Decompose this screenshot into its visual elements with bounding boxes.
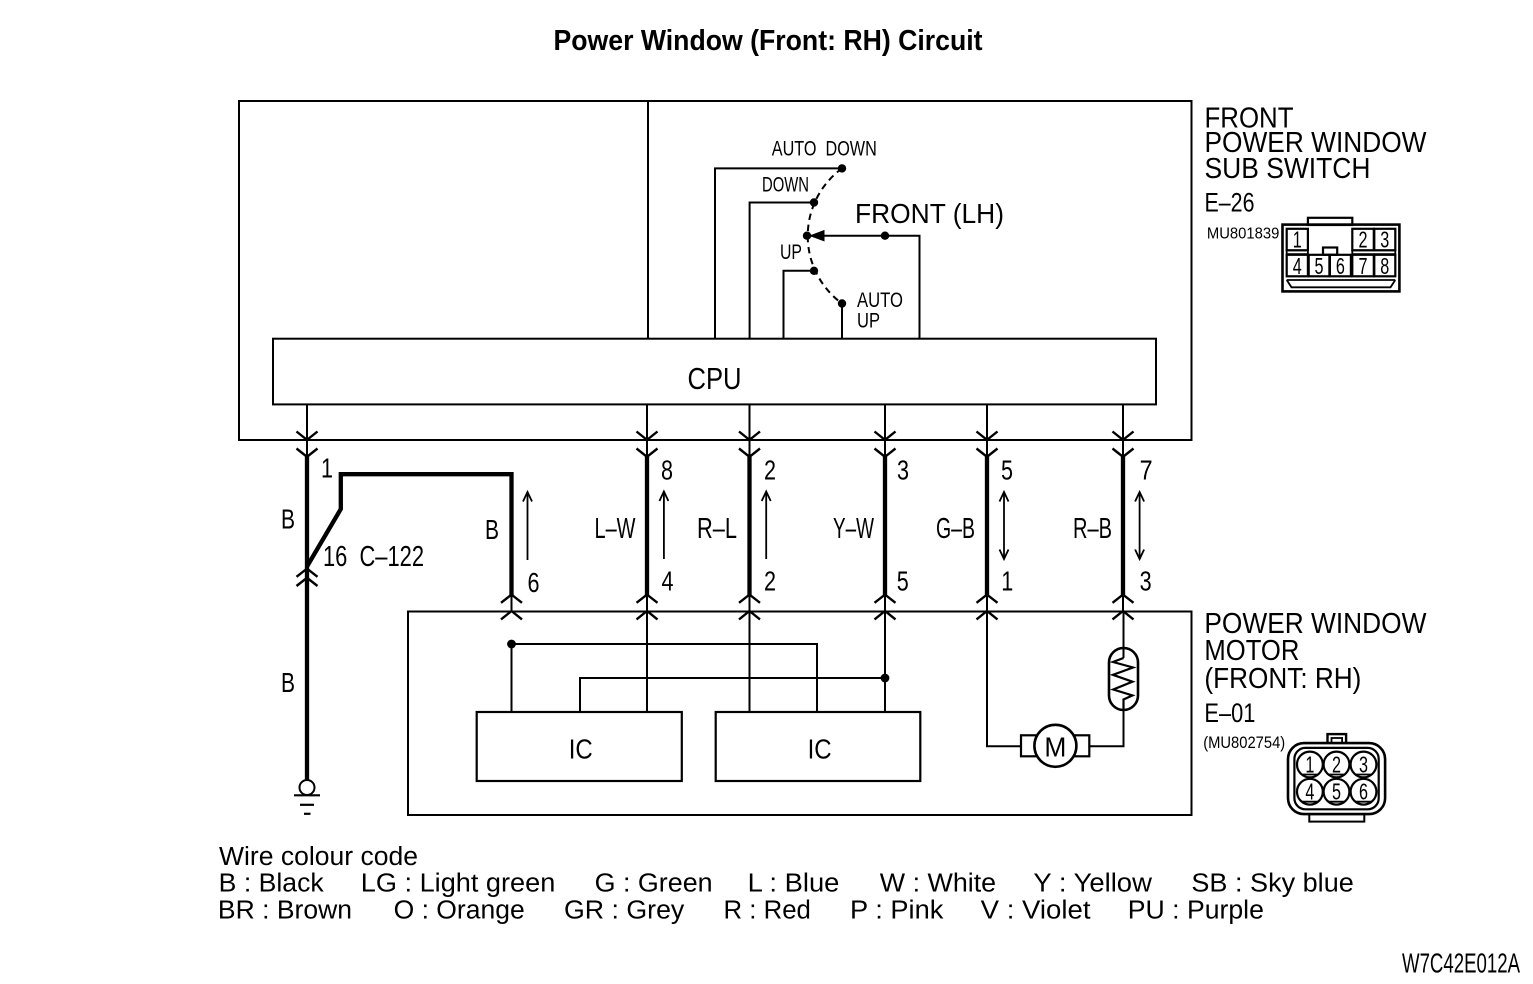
svg-text:B: B (281, 504, 295, 535)
svg-text:(MU802754): (MU802754) (1203, 734, 1285, 752)
svg-text:W7C42E012A: W7C42E012A (1402, 947, 1520, 978)
power window motor box E-01 (408, 612, 1192, 816)
current direction arrow (1003, 493, 1005, 558)
svg-text:LG : Light green: LG : Light green (361, 870, 556, 898)
current direction arrow (1139, 493, 1141, 558)
switch common pole FRONT (LH) (803, 198, 1004, 339)
svg-text:IC: IC (808, 734, 832, 765)
motor M1 (1021, 725, 1089, 767)
svg-text:SB : Sky blue: SB : Sky blue (1191, 870, 1353, 898)
IC U2 (477, 712, 682, 781)
svg-text:GR : Grey: GR : Grey (564, 897, 685, 925)
svg-text:BR : Brown: BR : Brown (218, 897, 352, 925)
connector pin chevrons (E-26 side) (977, 432, 998, 457)
connector pin chevrons (E-01 side) (1113, 595, 1134, 620)
wire B pin1 to ground (281, 404, 333, 780)
svg-text:3: 3 (1359, 752, 1368, 778)
motor box internal wiring (507, 640, 889, 712)
svg-text:UP: UP (857, 308, 880, 332)
svg-text:1: 1 (321, 453, 333, 484)
connector pin chevrons (E-26 side) (637, 432, 658, 457)
svg-text:E–01: E–01 (1204, 698, 1255, 728)
svg-text:4: 4 (662, 566, 674, 597)
connector pin chevrons (E-26 side) (875, 432, 896, 457)
connector pin chevrons (E-26 side) (1113, 432, 1134, 457)
wire R-B pins 7 to 3 (1073, 404, 1153, 619)
motor label block (1203, 608, 1427, 752)
svg-text:2: 2 (764, 566, 776, 597)
svg-text:AUTO DOWN: AUTO DOWN (772, 136, 877, 160)
current direction arrow (765, 493, 767, 560)
IC U3 (716, 712, 921, 781)
svg-text:MU801839: MU801839 (1207, 225, 1280, 242)
current direction arrow (527, 493, 529, 560)
switch contact AUTO UP (838, 288, 903, 339)
connector pin chevrons (E-26 side) (297, 432, 318, 457)
connector pin chevrons (E-26 side) (739, 432, 760, 457)
wire B-node down to IC1 (511, 644, 513, 712)
switch wiper dashed arc (808, 168, 842, 303)
connector E-26 pin numbers (1293, 227, 1390, 280)
in-line connector C-122 cavity 16 (297, 541, 425, 586)
thermistor PTC (1109, 612, 1138, 711)
svg-text:L–W: L–W (595, 513, 636, 545)
svg-text:B: B (281, 667, 295, 698)
svg-text:(FRONT: RH): (FRONT: RH) (1204, 663, 1361, 695)
svg-text:IC: IC (569, 734, 593, 765)
connector pin chevrons (E-01 side) (739, 595, 760, 620)
svg-text:2: 2 (1359, 227, 1368, 253)
svg-text:6: 6 (528, 567, 540, 598)
sub switch label block (1205, 102, 1428, 242)
current direction arrow (663, 493, 665, 560)
svg-text:CPU: CPU (688, 361, 742, 396)
svg-text:SUB SWITCH: SUB SWITCH (1205, 153, 1371, 185)
svg-text:3: 3 (897, 455, 909, 486)
svg-text:Wire colour code: Wire colour code (219, 843, 418, 871)
wire G-B to motor (987, 612, 1021, 747)
svg-text:UP: UP (780, 240, 802, 264)
wire B-node to IC2 (512, 644, 818, 712)
svg-text:4: 4 (1305, 779, 1314, 805)
internal divider wall (647, 101, 649, 339)
svg-text:M: M (1044, 732, 1066, 763)
wire Y-W node to IC1 (580, 678, 885, 712)
svg-text:B : Black: B : Black (219, 870, 324, 898)
wire B branch to motor pin 6 (307, 474, 540, 619)
svg-text:3: 3 (1140, 566, 1152, 597)
connector pin chevrons (E-01 side) (977, 595, 998, 620)
wire G-B pins 5 to 1 (936, 404, 1013, 619)
svg-text:Y : Yellow: Y : Yellow (1033, 870, 1152, 898)
svg-text:L : Blue: L : Blue (748, 870, 840, 898)
connector pin chevrons (E-01 side) (501, 595, 522, 620)
connector pin chevrons (E-01 side) (637, 595, 658, 620)
svg-text:Y–W: Y–W (833, 513, 874, 545)
svg-text:1: 1 (1001, 566, 1013, 597)
svg-text:V : Violet: V : Violet (981, 897, 1091, 925)
connector pin chevrons (E-01 side) (875, 595, 896, 620)
svg-text:8: 8 (1380, 253, 1389, 279)
connector E-01 pin numbers (1305, 752, 1368, 805)
switch contact UP (780, 240, 818, 339)
svg-text:16 C–122: 16 C–122 (323, 541, 424, 573)
svg-text:R : Red: R : Red (724, 897, 811, 925)
svg-text:6: 6 (1359, 779, 1368, 805)
wire L-W pins 8 to 4 (595, 404, 674, 712)
svg-text:G : Green: G : Green (595, 870, 713, 898)
svg-text:3: 3 (1380, 227, 1389, 253)
svg-text:6: 6 (1336, 253, 1345, 279)
svg-text:Power Window (Front: RH) Circu: Power Window (Front: RH) Circuit (554, 25, 983, 57)
svg-text:G–B: G–B (936, 513, 975, 545)
svg-text:R–B: R–B (1073, 513, 1112, 545)
svg-text:W : White: W : White (880, 870, 996, 898)
svg-text:4: 4 (1293, 253, 1302, 279)
svg-text:R–L: R–L (697, 513, 737, 545)
svg-text:5: 5 (1332, 779, 1341, 805)
svg-text:5: 5 (1315, 253, 1324, 279)
ground (294, 780, 320, 814)
svg-text:DOWN: DOWN (762, 172, 809, 196)
svg-text:B: B (485, 514, 499, 545)
svg-text:PU : Purple: PU : Purple (1128, 897, 1264, 925)
legend wire colour code (218, 843, 1354, 925)
svg-text:2: 2 (1332, 752, 1341, 778)
node junction on Y-W wire (881, 674, 890, 683)
sub switch outer box E-26 (239, 101, 1192, 440)
switch contact DOWN (750, 172, 819, 338)
svg-text:5: 5 (1001, 455, 1013, 486)
svg-text:P : Pink: P : Pink (850, 897, 944, 925)
svg-text:FRONT (LH): FRONT (LH) (855, 198, 1004, 229)
CPU U1 (273, 339, 1156, 405)
svg-text:1: 1 (1293, 227, 1302, 253)
wire Y-W pins 3 to 5 (833, 404, 909, 712)
svg-text:7: 7 (1140, 455, 1153, 486)
svg-text:1: 1 (1305, 752, 1314, 778)
wire motor to thermistor (1089, 710, 1123, 746)
connector E-26 pinout (1283, 218, 1400, 292)
svg-text:8: 8 (661, 455, 673, 486)
svg-text:O : Orange: O : Orange (394, 897, 525, 925)
svg-text:7: 7 (1359, 253, 1368, 279)
connector E-01 pinout (1288, 734, 1385, 822)
svg-text:5: 5 (897, 566, 909, 597)
node junction on B wire (507, 640, 516, 649)
switch contact AUTO DOWN (715, 136, 877, 338)
svg-text:2: 2 (764, 455, 776, 486)
svg-text:E–26: E–26 (1205, 188, 1255, 218)
wire R-L pins 2 to 2 (697, 404, 776, 712)
